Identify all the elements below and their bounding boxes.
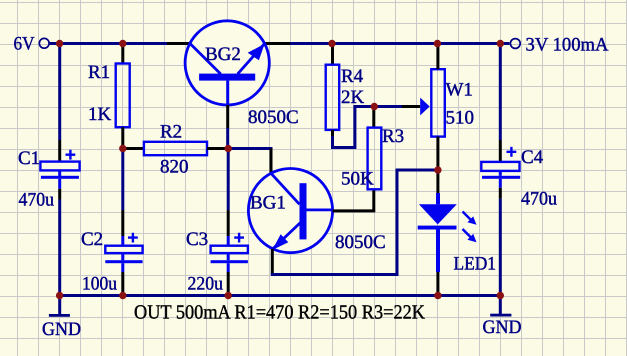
svg-text:8050C: 8050C	[335, 232, 386, 253]
svg-text:C3: C3	[186, 229, 208, 250]
junction bottom rail at C2	[119, 292, 126, 299]
junction node A R1/R2	[119, 145, 126, 152]
resistor R3	[368, 128, 382, 190]
resistor R1	[116, 64, 130, 128]
svg-text:GND: GND	[483, 317, 522, 338]
pin W1 top	[436, 44, 439, 70]
pin LED1 bottom	[436, 272, 439, 296]
junction bottom rail at C3	[225, 292, 232, 299]
svg-text:LED1: LED1	[454, 254, 497, 275]
pin BG1 emitter	[271, 249, 274, 275]
wire C3 top vertical	[227, 149, 230, 211]
pin R4 top	[331, 44, 334, 65]
junction bottom rail at GND left	[56, 292, 63, 299]
svg-text:R1: R1	[88, 62, 110, 83]
transistor BG2	[185, 21, 269, 105]
svg-text:OUT 500mA R1=470 R2=150 R3=22K: OUT 500mA R1=470 R2=150 R3=22K	[134, 302, 425, 324]
junction top rail at R4	[328, 40, 335, 47]
wire R4 bottom hook to wiper node	[333, 107, 375, 148]
junction top rail at C1	[56, 40, 63, 47]
svg-text:470u: 470u	[19, 190, 55, 211]
ground GND left	[42, 296, 81, 341]
capacitor C3	[211, 233, 248, 272]
svg-text:470u: 470u	[521, 189, 557, 210]
resistor R2	[144, 142, 207, 155]
svg-text:3V 100mA: 3V 100mA	[526, 35, 609, 56]
terminal 6V	[14, 34, 50, 55]
junction wiper node R4/R3/W1	[371, 103, 378, 110]
wire top rail left (6V to BG2 collector)	[49, 42, 167, 45]
pin BG2 base	[226, 105, 229, 128]
junction top rail at W1	[434, 40, 441, 47]
wire C4 bottom to ground rail	[499, 188, 502, 199]
wire node A vertical (R1 bottom to C2)	[121, 149, 124, 211]
junction bottom rail at LED1	[434, 292, 441, 299]
pin R1 top	[121, 44, 124, 64]
svg-text:BG2: BG2	[205, 44, 241, 65]
wire C4 top vertical	[499, 44, 502, 141]
resistor R4	[326, 65, 340, 130]
pin R4 bottom	[331, 130, 334, 137]
wire top rail right (BG2 emitter to 3V terminal)	[264, 42, 290, 45]
svg-text:100u: 100u	[82, 274, 117, 295]
wire BG1 emitter to LED node	[271, 170, 438, 275]
pin R2 left	[123, 147, 144, 150]
wire bottom ground rail	[59, 294, 500, 297]
diode LED1	[418, 193, 477, 272]
svg-text:2K: 2K	[341, 87, 365, 108]
ground GND right	[483, 296, 522, 339]
svg-text:220u: 220u	[188, 274, 224, 295]
junction LED node W1/LED1	[434, 166, 441, 173]
junction top rail at R1	[119, 40, 126, 47]
capacitor C2	[105, 233, 142, 272]
pin C2 bottom	[121, 272, 124, 296]
svg-text:R2: R2	[160, 122, 182, 143]
wire C1 bottom to ground rail	[58, 189, 61, 200]
wire pin BG2 collector stub	[167, 42, 191, 45]
capacitor C4	[481, 147, 520, 188]
svg-text:C4: C4	[521, 147, 544, 168]
pin R3 top	[372, 107, 375, 128]
wire	[290, 42, 509, 45]
svg-text:BG1: BG1	[250, 193, 286, 214]
pin C3 bottom	[227, 272, 230, 296]
junction bottom rail at C4/GND right	[497, 292, 504, 299]
transistor BG1	[248, 169, 332, 253]
potentiometer W1	[420, 69, 445, 136]
svg-text:820: 820	[160, 157, 189, 178]
svg-text:C1: C1	[18, 148, 40, 169]
svg-text:R4: R4	[341, 66, 364, 87]
pin LED1 top	[436, 170, 439, 193]
pin C2 top	[121, 210, 124, 236]
pin W1 bottom	[436, 137, 439, 170]
terminal 3V	[510, 35, 608, 56]
svg-text:50K: 50K	[341, 169, 374, 190]
capacitor C1	[40, 150, 79, 189]
svg-text:C2: C2	[81, 229, 103, 250]
svg-text:W1: W1	[446, 80, 473, 101]
wire wiper node to W1 arrow	[374, 105, 402, 108]
wire BG2 base node to BG1 collector	[228, 147, 272, 150]
wire BG1 base to R3 bottom	[333, 189, 374, 211]
pin C3 top	[227, 210, 230, 236]
junction node B R2/BG2 base/C3	[225, 145, 232, 152]
svg-text:510: 510	[446, 108, 475, 129]
svg-text:1K: 1K	[88, 104, 112, 125]
svg-text:8050C: 8050C	[248, 107, 299, 128]
pin C4 top	[499, 140, 502, 162]
svg-text:6V: 6V	[14, 34, 35, 55]
pin C1 top	[58, 140, 61, 162]
junction top rail at C4	[497, 40, 504, 47]
wire C1 top vertical	[58, 44, 61, 141]
svg-text:R3: R3	[382, 126, 404, 147]
pin R1 bottom	[121, 127, 124, 148]
svg-text:GND: GND	[42, 319, 81, 340]
pin R2 right	[207, 147, 228, 150]
